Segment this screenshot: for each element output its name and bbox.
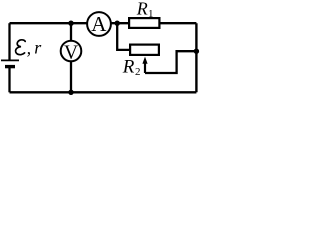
resistor R1 box — [129, 18, 159, 28]
wire: bottom wire — [10, 91, 197, 93]
wire: slider tail right then up to right wire — [145, 51, 196, 73]
rheostat slider arrow shaft — [144, 62, 146, 74]
resistor R2 box (rheostat) — [130, 45, 159, 55]
node: junction dot on top wire (voltmeter tap) — [68, 21, 73, 26]
wire: from ammeter to R1 — [111, 22, 129, 24]
node: junction dot between ammeter and R1 (branch to R2) — [115, 21, 120, 26]
wire: left vertical wire lower (battery to bottom wire) — [8, 67, 10, 93]
wire: branch from junction down to R2 left side — [117, 23, 130, 50]
svg-text:R: R — [136, 0, 148, 19]
svg-text:1: 1 — [148, 8, 154, 20]
wire: from R1 right to top-right corner — [159, 22, 196, 24]
wire: voltmeter riser from top wire down to voltmeter — [70, 23, 72, 40]
ammeter A1 circle — [87, 12, 111, 36]
svg-text:2: 2 — [135, 66, 141, 78]
wire: top wire left segment from top-left corner to ammeter — [10, 22, 88, 24]
wire: right vertical wire — [195, 23, 197, 92]
svg-text:A: A — [91, 12, 107, 36]
wire: left vertical wire upper (corner to battery top plate) — [8, 23, 10, 60]
battery E,r : long thin plate — [1, 59, 19, 61]
svg-text:V: V — [64, 43, 78, 64]
wire: voltmeter lower lead down to bottom wire — [70, 62, 72, 93]
svg-text:,: , — [27, 38, 32, 58]
node: junction dot on bottom wire below voltmeter — [68, 90, 73, 95]
rheostat slider arrowhead — [142, 57, 147, 64]
svg-text:R: R — [122, 57, 135, 78]
voltmeter V1 circle — [61, 41, 82, 62]
battery E,r : short thick plate — [5, 65, 15, 68]
svg-text:r: r — [34, 38, 42, 58]
node: junction dot on right wire at slider connection — [194, 49, 199, 54]
battery label script-E (EMF) drawn as path — [16, 40, 26, 55]
